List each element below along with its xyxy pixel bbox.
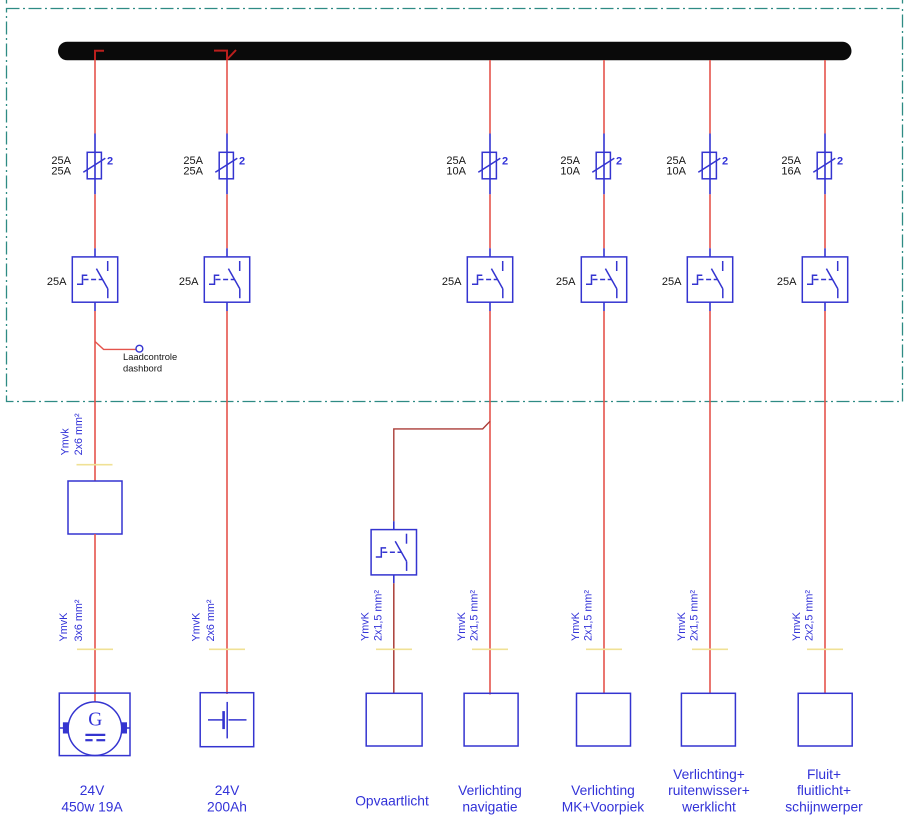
breaker Q2 pins <box>226 248 228 311</box>
svg-text:G: G <box>88 710 102 731</box>
value label Q1 25A <box>47 276 67 288</box>
breaker Q1 pins <box>94 248 96 311</box>
pin number 2 of fuse F6 <box>837 156 843 168</box>
fuse-switch F3 25A/10A <box>478 152 500 179</box>
svg-text:dashbord: dashbord <box>123 363 162 374</box>
value label fuse F6 25A/16A <box>781 155 801 178</box>
cable marker tick Opvaartlicht <box>376 648 412 650</box>
junction tap on circuit 3 <box>394 421 490 521</box>
label load Verlichting MK+Voorpiek <box>562 783 645 814</box>
svg-text:ruitenwisser+: ruitenwisser+ <box>668 783 750 798</box>
svg-text:werklicht: werklicht <box>681 799 736 814</box>
label load Fluit fluitlicht schijnwerper <box>785 767 863 814</box>
pin number 2 of fuse F2 <box>239 156 245 168</box>
node Laadcontrole dashbord (indicator terminal) <box>136 345 143 352</box>
fuse F5 pins <box>709 134 711 195</box>
wire fuse F3 to breaker Q3 <box>489 194 491 248</box>
svg-text:2x1,5 mm²: 2x1,5 mm² <box>372 590 384 641</box>
svg-text:navigatie: navigatie <box>462 799 518 814</box>
circuit breaker Q2 25A <box>204 257 249 302</box>
load box Verlichting MK+Voorpiek <box>577 693 631 746</box>
wire fuse F4 to breaker Q4 <box>603 194 605 248</box>
cable label YmvK 2x1,5 mm² (Verlichting ruitenwisser werklicht) <box>676 590 701 641</box>
svg-text:Laadcontrole: Laadcontrole <box>123 351 177 362</box>
svg-text:YmvK: YmvK <box>456 611 468 641</box>
svg-text:Verlichting: Verlichting <box>458 783 522 798</box>
busbar 24V DC distribution <box>58 42 852 61</box>
svg-text:Verlichting+: Verlichting+ <box>673 767 745 782</box>
cable label YmvK 2x6 mm2 (circuit 2) <box>191 599 217 641</box>
DC symbol inside generator <box>85 735 105 740</box>
svg-text:Fluit+: Fluit+ <box>807 767 841 782</box>
pin number 2 of fuse F5 <box>722 156 728 168</box>
value label Q5 25A <box>662 276 682 288</box>
svg-text:2x6 mm²: 2x6 mm² <box>205 599 217 641</box>
wire breaker to load Fluit fluitlicht schijnwerper <box>824 311 826 693</box>
circuit breaker Q7 <box>371 530 416 575</box>
wire breaker Q7 to Opvaartlicht <box>393 583 395 693</box>
fuse-switch F2 25A/25A <box>215 152 237 179</box>
breaker Q6 pins <box>824 248 826 311</box>
cable label YmvK 2x1,5 mm2 (navigatie) <box>456 590 481 641</box>
svg-text:Opvaartlicht: Opvaartlicht <box>355 794 429 809</box>
cable label YmvK 3x6 mm2 (circuit 1 lower) <box>58 599 85 641</box>
label node Laadcontrole dashbord <box>123 351 177 374</box>
wire fuse F6 to breaker Q6 <box>824 194 826 248</box>
svg-text:25A: 25A <box>183 166 203 178</box>
wire fuse F1 to breaker Q1 <box>94 194 96 248</box>
cable marker tick navigatie <box>472 648 508 650</box>
wire breaker to load Verlichting ruitenwisser werklicht <box>709 311 711 693</box>
cable label Ymvk 2x6 mm2 (circuit 1 upper) <box>59 413 84 455</box>
cable marker tick Fluit fluitlicht schijnwerper <box>807 648 843 650</box>
svg-text:2x6 mm²: 2x6 mm² <box>73 413 85 455</box>
svg-text:25A: 25A <box>47 276 67 288</box>
value label Q3 25A <box>442 276 462 288</box>
label generator 24V 450w 19A <box>61 783 123 814</box>
svg-text:2: 2 <box>239 156 245 168</box>
svg-text:25A: 25A <box>556 276 576 288</box>
svg-text:YmvK: YmvK <box>570 611 582 641</box>
breaker Q7 pins (branch) <box>393 521 395 583</box>
battery B1 box <box>200 693 254 747</box>
wire fuse F2 to breaker Q2 <box>226 194 228 248</box>
value label fuse F1 25A/25A <box>51 155 71 178</box>
fuse F2 pins <box>226 134 228 195</box>
fuse-switch F1 25A/25A <box>83 152 105 179</box>
svg-text:schijnwerper: schijnwerper <box>785 799 863 814</box>
value label fuse F5 25A/10A <box>666 155 686 178</box>
label load Opvaartlicht <box>355 794 429 809</box>
circuit breaker Q4 25A <box>581 257 626 302</box>
generator G1 24V DC <box>59 693 130 756</box>
wire shunt to generator <box>94 534 96 702</box>
svg-text:Verlichting: Verlichting <box>571 783 635 798</box>
fuse-switch F6 25A/16A <box>813 152 835 179</box>
svg-text:2x2,5 mm²: 2x2,5 mm² <box>804 590 816 641</box>
wire breaker Q2 to battery <box>226 311 228 694</box>
svg-text:3x6 mm²: 3x6 mm² <box>73 599 85 641</box>
panel boundary (dash-dot frame) <box>7 0 903 402</box>
value label fuse F4 25A/10A <box>560 155 580 178</box>
breaker Q5 pins <box>709 248 711 311</box>
svg-text:24V: 24V <box>215 783 240 798</box>
wire busbar drop to fuse F2 <box>226 60 228 134</box>
svg-text:2: 2 <box>722 156 728 168</box>
circuit breaker Q1 25A <box>72 257 117 302</box>
svg-text:10A: 10A <box>666 166 686 178</box>
label battery 24V 200Ah <box>207 783 247 814</box>
svg-text:2x1,5 mm²: 2x1,5 mm² <box>469 590 481 641</box>
wire busbar drop to fuse F4 <box>603 60 605 134</box>
svg-text:YmvK: YmvK <box>58 612 70 642</box>
svg-text:10A: 10A <box>560 166 580 178</box>
svg-text:2x1,5 mm²: 2x1,5 mm² <box>689 590 701 641</box>
circuit breaker Q3 25A <box>467 257 512 302</box>
cable marker tick circuit 1 lower <box>77 648 113 650</box>
load box Verlichting navigatie <box>464 693 518 746</box>
busbar tap node circuit 2 <box>214 50 236 60</box>
svg-text:YmvK: YmvK <box>360 611 372 641</box>
svg-text:2: 2 <box>107 156 113 168</box>
svg-text:fluitlicht+: fluitlicht+ <box>797 783 851 798</box>
load box Verlichting ruitenwisser werklicht <box>681 693 735 746</box>
fuse F6 pins <box>824 134 826 195</box>
breaker Q4 pins <box>603 248 605 311</box>
value label fuse F2 25A/25A <box>183 155 203 178</box>
fuse-switch F5 25A/10A <box>698 152 720 179</box>
wire breaker to load Verlichting MK+Voorpiek <box>603 311 605 693</box>
value label Q4 25A <box>556 276 576 288</box>
svg-text:MK+Voorpiek: MK+Voorpiek <box>562 799 645 814</box>
fuse F4 pins <box>603 134 605 195</box>
generator G1 terminals <box>63 722 127 733</box>
svg-text:YmvK: YmvK <box>191 612 203 642</box>
junction box / shunt (circuit 1) <box>68 481 122 534</box>
circuit breaker Q6 25A <box>802 257 847 302</box>
label load Verlichting navigatie <box>458 783 522 814</box>
wire busbar drop to fuse F1 <box>94 60 96 134</box>
svg-text:25A: 25A <box>51 166 71 178</box>
svg-text:YmvK: YmvK <box>676 611 688 641</box>
cable marker tick Verlichting MK+Voorpiek <box>586 648 622 650</box>
value label Q2 25A <box>179 276 199 288</box>
wire busbar drop to fuse F3 <box>489 60 491 134</box>
generator G1 letter G <box>88 710 102 731</box>
circuit breaker Q5 25A <box>687 257 732 302</box>
busbar tap node circuit 1 <box>95 51 104 60</box>
svg-text:2: 2 <box>616 156 622 168</box>
svg-text:25A: 25A <box>662 276 682 288</box>
pin number 2 of fuse F4 <box>616 156 622 168</box>
svg-text:10A: 10A <box>446 166 466 178</box>
svg-text:16A: 16A <box>781 166 801 178</box>
load box Fluit fluitlicht schijnwerper <box>798 693 852 746</box>
wire breaker Q3 down (circuit 3 main) <box>489 311 491 695</box>
svg-text:450w 19A: 450w 19A <box>61 799 123 814</box>
fuse-switch F4 25A/10A <box>592 152 614 179</box>
svg-text:Ymvk: Ymvk <box>59 428 71 456</box>
load box Opvaartlicht <box>366 693 422 746</box>
fuse F3 pins <box>489 134 491 195</box>
cable marker tick circuit 1 upper <box>77 464 113 466</box>
svg-text:200Ah: 200Ah <box>207 799 247 814</box>
value label fuse F3 25A/10A <box>446 155 466 178</box>
svg-text:2: 2 <box>502 156 508 168</box>
breaker Q3 pins <box>489 248 491 311</box>
svg-text:24V: 24V <box>80 783 105 798</box>
svg-text:25A: 25A <box>179 276 199 288</box>
value label Q6 25A <box>777 276 797 288</box>
cable marker tick Verlichting ruitenwisser werklicht <box>692 648 728 650</box>
cable label YmvK 2x2,5 mm² (Fluit fluitlicht schijnwerper) <box>791 590 816 641</box>
svg-text:25A: 25A <box>442 276 462 288</box>
cable label YmvK 2x1,5 mm2 (Opvaartlicht) <box>360 590 385 641</box>
fuse F1 pins <box>94 134 96 195</box>
svg-text:25A: 25A <box>777 276 797 288</box>
svg-text:2: 2 <box>837 156 843 168</box>
label load Verlichting ruitenwisser werklicht <box>668 767 750 814</box>
wire busbar drop to fuse F5 <box>709 60 711 134</box>
cable label YmvK 2x1,5 mm² (Verlichting MK+Voorpiek) <box>570 590 595 641</box>
wire busbar drop to fuse F6 <box>824 60 826 134</box>
svg-text:YmvK: YmvK <box>791 611 803 641</box>
wire branch to charge-control lamp <box>95 342 136 350</box>
battery B1 symbol <box>208 702 247 739</box>
pin number 2 of fuse F1 <box>107 156 113 168</box>
wire fuse F5 to breaker Q5 <box>709 194 711 248</box>
pin number 2 of fuse F3 <box>502 156 508 168</box>
svg-text:2x1,5 mm²: 2x1,5 mm² <box>583 590 595 641</box>
wire breaker Q1 down (circuit 1) <box>94 311 96 481</box>
cable marker tick circuit 2 <box>209 648 245 650</box>
